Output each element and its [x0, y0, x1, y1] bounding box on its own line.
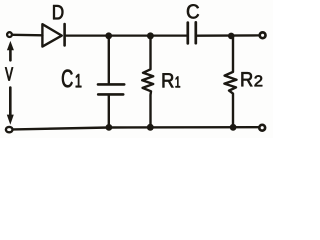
wire diode cathode to capacitor C	[66, 34, 187, 36]
capacitor C	[188, 22, 196, 43]
wire C1 top lead	[108, 37, 110, 83]
wire capacitor C to output terminal	[197, 34, 259, 37]
label V	[5, 67, 13, 80]
capacitor C1	[98, 84, 124, 94]
label C	[187, 4, 199, 18]
terminal input top	[7, 32, 12, 37]
resistor R2	[224, 37, 236, 127]
diode D	[42, 24, 64, 47]
node top of R1	[147, 32, 154, 39]
label D	[53, 5, 63, 19]
node top of R2	[228, 33, 235, 40]
node top of C1	[105, 32, 112, 39]
wire terminal to diode anode	[13, 34, 42, 37]
terminal input bottom	[6, 127, 13, 132]
resistor R1	[142, 37, 153, 128]
arrow up toward top input terminal	[7, 41, 14, 60]
node bottom of C1	[106, 124, 113, 131]
wire bottom rail	[13, 127, 258, 129]
label R1	[163, 73, 180, 87]
arrow down toward bottom input terminal	[7, 88, 14, 125]
label C1	[62, 70, 81, 88]
terminal output bottom	[259, 125, 265, 131]
wire C1 bottom lead	[108, 96, 110, 128]
node bottom of R2	[230, 124, 237, 131]
label R2	[242, 72, 263, 86]
terminal output top	[260, 32, 266, 38]
node bottom of R1	[147, 124, 154, 131]
